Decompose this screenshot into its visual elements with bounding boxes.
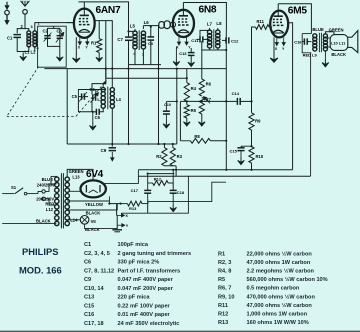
- wire grid entry: [66, 22, 74, 24]
- svg-text:L10 L11: L10 L11: [331, 41, 346, 46]
- IFT1 coil L6: [141, 31, 145, 35]
- C15 ground: [240, 151, 242, 157]
- svg-text:220 pF mica: 220 pF mica: [118, 295, 151, 301]
- 6AN7 cathode ground: [73, 37, 81, 62]
- svg-text:C11: C11: [191, 38, 199, 43]
- svg-text:YELLOW: YELLOW: [85, 202, 103, 207]
- svg-text:C13: C13: [179, 51, 187, 56]
- svg-text:BLUE: BLUE: [312, 27, 324, 32]
- heater Y arrow: [117, 224, 125, 227]
- long vertical from IFT2: [225, 30, 227, 170]
- screen bus: [44, 68, 226, 70]
- svg-text:24 mF 350V electrolytic: 24 mF 350V electrolytic: [118, 321, 180, 327]
- svg-text:C12: C12: [231, 38, 239, 43]
- svg-text:3: 3: [31, 25, 33, 29]
- svg-text:R4, 8: R4, 8: [218, 269, 231, 275]
- 6N8 top lead: [182, 3, 184, 10]
- 6AN7 electrodes: [80, 14, 89, 16]
- primary taps: [55, 175, 57, 177]
- wire C11 drop: [201, 41, 203, 50]
- tube 6AN7 envelope: [74, 9, 95, 38]
- R12 wires: [148, 182, 153, 184]
- capacitor C12: [226, 37, 229, 43]
- osc coil L3: [101, 88, 105, 92]
- C10 ground: [165, 114, 167, 121]
- wire tube1 side: [94, 20, 112, 22]
- aerial symbol: [21, 1, 30, 6]
- 6M5 screen drop: [288, 23, 293, 170]
- svg-text:C15: C15: [84, 303, 94, 309]
- 6V4 heater tap: [69, 190, 80, 192]
- svg-text:L12: L12: [46, 207, 54, 212]
- wire L2 top to grid line: [35, 23, 75, 32]
- svg-text:R13: R13: [129, 206, 137, 211]
- svg-text:6M5: 6M5: [288, 6, 308, 17]
- IFT1 bottom bus: [129, 64, 162, 66]
- volume bus: [180, 100, 226, 102]
- heater center tap ground: [116, 215, 118, 229]
- 6AN7 pin Y: [86, 38, 89, 45]
- tuning box: [38, 26, 67, 67]
- wire trimmer tops: [48, 28, 60, 30]
- svg-text:C16: C16: [294, 40, 302, 45]
- svg-text:RED: RED: [303, 52, 312, 57]
- R7 ground: [201, 114, 203, 118]
- svg-text:S1: S1: [11, 185, 17, 190]
- R4R5 mid wire: [186, 101, 188, 104]
- bus dots B plus: [172, 169, 174, 171]
- power transformer primary: [55, 177, 59, 181]
- heater X arrow: [117, 214, 125, 217]
- plate wire top run 2: [183, 3, 226, 31]
- L4 leads: [111, 86, 113, 87]
- svg-text:Part of I.F. transformers: Part of I.F. transformers: [118, 268, 181, 274]
- 6N8 electrodes: [179, 15, 188, 17]
- svg-text:R9: R9: [255, 119, 261, 124]
- gang dashed bottom: [7, 115, 76, 117]
- C11 wires: [196, 38, 200, 40]
- svg-text:L4: L4: [116, 97, 122, 102]
- C7 leads: [128, 31, 130, 37]
- AVC bus: [67, 143, 177, 145]
- svg-text:L8: L8: [216, 21, 222, 26]
- svg-text:47,000 ohms ½W carbon: 47,000 ohms ½W carbon: [247, 302, 313, 309]
- grid cap wire: [143, 25, 158, 27]
- osc cap bottom wires: [78, 97, 92, 112]
- gang dashed to C4: [76, 81, 106, 116]
- wire aerial down: [24, 14, 26, 28]
- AVC left drop: [66, 69, 68, 144]
- svg-text:1,000 ohms 1W carbon: 1,000 ohms 1W carbon: [247, 311, 308, 317]
- 6AN7 top lead: [83, 2, 85, 9]
- 6M5 pin Y: [282, 38, 285, 46]
- bus B plus: [138, 169, 292, 171]
- C8 leads: [150, 26, 152, 37]
- wire R6 top: [201, 50, 203, 79]
- C13 ground: [188, 59, 195, 66]
- svg-text:240/250V: 240/250V: [37, 183, 55, 188]
- R11 wires: [269, 26, 272, 28]
- C18 wires: [172, 183, 174, 190]
- svg-text:R6, 7: R6, 7: [218, 286, 231, 292]
- svg-text:R2, 3: R2, 3: [218, 260, 231, 266]
- svg-text:R11: R11: [257, 19, 265, 24]
- svg-text:L9: L9: [312, 52, 317, 57]
- C17 wires: [147, 174, 149, 191]
- C15 wires: [240, 146, 242, 148]
- svg-text:0.22 mF 100V paper: 0.22 mF 100V paper: [118, 303, 171, 309]
- svg-text:160 ohms 1W W/W 10%: 160 ohms 1W W/W 10%: [247, 320, 309, 326]
- svg-text:C6: C6: [95, 115, 101, 120]
- wire C12: [222, 39, 226, 41]
- IFT1 bottom leads: [134, 49, 136, 65]
- bus screen lower: [148, 173, 175, 175]
- junction dots x226: [225, 49, 227, 51]
- svg-text:R3: R3: [177, 154, 183, 159]
- gang dashed link: [7, 67, 39, 117]
- R9 wires: [251, 101, 253, 112]
- C17 bottom wire: [147, 199, 149, 213]
- svg-text:R9, 10: R9, 10: [218, 294, 234, 300]
- plate run V1: [79, 2, 129, 32]
- output transformer primary L9: [313, 34, 317, 38]
- svg-text:C10, 14: C10, 14: [84, 286, 104, 292]
- capacitor C18: [170, 190, 177, 193]
- wire trimmer bottoms: [48, 44, 60, 46]
- heater junction wires: [108, 196, 110, 203]
- svg-text:MOD. 166: MOD. 166: [19, 265, 62, 276]
- svg-text:C1: C1: [84, 242, 91, 248]
- C9 wires: [111, 144, 113, 147]
- svg-text:0.047 mF 200V paper: 0.047 mF 200V paper: [118, 286, 174, 292]
- wire sec to speaker bot: [327, 46, 330, 48]
- svg-text:C9: C9: [101, 148, 107, 153]
- output transformer core: [318, 33, 320, 52]
- C18 ground: [170, 205, 177, 212]
- R5 ground: [184, 118, 191, 126]
- svg-text:C13: C13: [84, 295, 94, 301]
- 6V4 anodes: [85, 185, 87, 192]
- svg-text:C7: C7: [117, 37, 123, 42]
- output transformer secondary: [323, 34, 327, 38]
- lamp wires: [67, 219, 80, 221]
- osc coil L4: [110, 88, 114, 92]
- svg-text:R1: R1: [218, 252, 225, 258]
- ground below antenna coil: [20, 53, 27, 61]
- 6N8 pin X: [177, 36, 180, 45]
- C6 wires: [93, 111, 97, 113]
- svg-text:C16: C16: [84, 312, 94, 318]
- svg-text:47,000 ohms 1W carbon: 47,000 ohms 1W carbon: [247, 260, 311, 266]
- svg-text:C1: C1: [7, 36, 13, 41]
- svg-text:C5: C5: [72, 94, 78, 99]
- osc core: [107, 87, 109, 110]
- R8 wires: [180, 140, 190, 142]
- power transformer secondary: [65, 177, 69, 181]
- R7 wiper arrow: [204, 97, 210, 104]
- wire aerial to C1: [17, 29, 25, 34]
- R1 ground: [96, 53, 103, 62]
- osc ground: [92, 112, 94, 122]
- svg-text:560,000 ohms ½W carbon 10%: 560,000 ohms ½W carbon 10%: [247, 276, 328, 283]
- svg-text:BLACK: BLACK: [331, 52, 346, 57]
- svg-text:L5: L5: [130, 23, 136, 28]
- svg-text:C15: C15: [230, 148, 238, 153]
- svg-text:C17: C17: [131, 188, 139, 193]
- IFT1 coil L5: [133, 31, 137, 35]
- coil L2: [33, 31, 37, 35]
- svg-text:C17, 18: C17, 18: [84, 321, 104, 327]
- svg-text:2 gang tuning and trimmers: 2 gang tuning and trimmers: [118, 251, 192, 257]
- wire C7-L5 top: [129, 30, 136, 32]
- svg-text:Y: Y: [126, 224, 129, 228]
- wire to R1: [98, 21, 100, 39]
- wire aerial to L1: [25, 29, 29, 32]
- IFT2 bottom leads: [209, 48, 211, 50]
- 6V4 cathode wire: [104, 170, 138, 184]
- svg-text:BLACK: BLACK: [85, 227, 100, 232]
- svg-text:330 pF mica 2%: 330 pF mica 2%: [118, 260, 160, 266]
- 6AN7 pin X: [78, 38, 81, 45]
- svg-text:VII: VII: [91, 219, 96, 224]
- L3 top lead: [103, 84, 106, 88]
- svg-text:R5: R5: [191, 108, 197, 113]
- svg-text:L6: L6: [144, 20, 150, 25]
- border frame bottom: [0, 330, 360, 332]
- C10 wires: [165, 101, 167, 111]
- 6M5 cathode ground: [270, 37, 278, 62]
- 6M5 electrodes: [274, 15, 283, 17]
- plate wire top run 3: [278, 4, 311, 34]
- svg-text:R11: R11: [218, 303, 228, 309]
- 6N8 cathode ground: [175, 47, 177, 59]
- tube 6N8 envelope: [173, 10, 194, 37]
- svg-text:2.2 megohms ½W carbon: 2.2 megohms ½W carbon: [247, 268, 315, 275]
- IFT2 coil L7: [207, 30, 211, 34]
- wire tube1 g1 down: [111, 21, 113, 87]
- svg-text:C9: C9: [84, 277, 91, 283]
- mains terminals: [42, 190, 45, 193]
- wire R4 top: [186, 69, 188, 83]
- power transformer core: [60, 173, 62, 228]
- svg-text:R1: R1: [91, 41, 97, 46]
- earth ground arrow: [5, 15, 8, 24]
- wire sec to speaker top: [325, 32, 334, 35]
- svg-text:BLACK: BLACK: [86, 210, 101, 215]
- svg-text:BLACK: BLACK: [36, 218, 51, 223]
- svg-text:L7: L7: [207, 22, 213, 27]
- svg-text:X: X: [125, 214, 128, 218]
- osc cap top wires: [78, 90, 105, 97]
- wire tube1 to osc: [92, 21, 106, 90]
- vert C7 bus drop: [128, 65, 130, 144]
- wire IFT1 bus drop: [158, 25, 160, 64]
- R10 bottom: [251, 163, 253, 170]
- svg-text:R10: R10: [256, 154, 264, 159]
- vert C8 drop: [158, 65, 160, 144]
- earth terminal arrow: [5, 2, 8, 9]
- wire C11-L7 top: [200, 30, 210, 39]
- C13 wires: [190, 48, 192, 53]
- speaker voice coil box: [330, 35, 348, 51]
- heater bus y78: [106, 77, 187, 79]
- svg-text:0.01 mF 400V paper: 0.01 mF 400V paper: [118, 312, 171, 318]
- heater wire yellow: [67, 200, 109, 202]
- svg-text:C7, 8, 11,12: C7, 8, 11,12: [84, 268, 114, 274]
- svg-text:6N8: 6N8: [199, 5, 217, 16]
- avc dots: [111, 143, 113, 145]
- bus dots: [105, 68, 107, 70]
- grid cap clip: [159, 22, 165, 29]
- svg-text:100pF mica: 100pF mica: [118, 242, 149, 248]
- svg-text:R5: R5: [218, 277, 225, 283]
- C14 wires: [226, 100, 237, 102]
- R2R3 top wires: [163, 144, 165, 148]
- IFT1 core: [138, 30, 140, 50]
- IFT2 core: [213, 29, 215, 49]
- wire L2 bottom: [34, 47, 36, 52]
- tube 6V4 envelope: [81, 180, 106, 197]
- svg-text:R4: R4: [191, 86, 197, 91]
- C16 wires: [302, 34, 304, 42]
- wire C1 bottom: [17, 38, 29, 52]
- IFT2 coil L8: [216, 30, 220, 34]
- svg-text:R12: R12: [218, 311, 228, 317]
- 6M5 top lead: [277, 4, 279, 10]
- svg-text:470,000 ohms ½W carbon: 470,000 ohms ½W carbon: [247, 293, 316, 300]
- wire drop x1058: [105, 69, 107, 79]
- tube 6M5 envelope: [270, 11, 288, 38]
- svg-text:L13: L13: [72, 174, 80, 179]
- R2R3 bottom wires: [164, 165, 176, 167]
- svg-text:R6: R6: [206, 81, 212, 86]
- filter box lines: [121, 176, 188, 213]
- 6M5 pin X: [275, 38, 278, 46]
- IFT2 bottom bus: [202, 49, 226, 51]
- svg-text:6AN7: 6AN7: [96, 5, 121, 16]
- svg-text:0.5 megohm carbon: 0.5 megohm carbon: [247, 286, 300, 292]
- 6N8 grid cap: [170, 22, 175, 27]
- svg-text:C2, 3, 4, 5: C2, 3, 4, 5: [84, 251, 110, 257]
- svg-text:0.047 mF 400V paper: 0.047 mF 400V paper: [118, 277, 174, 283]
- ground in tuning box: [59, 46, 61, 53]
- heater wire black2: [85, 224, 118, 229]
- output B+ drop: [310, 53, 312, 176]
- bus y176: [138, 175, 310, 177]
- svg-text:6V4: 6V4: [86, 169, 104, 180]
- svg-text:R12: R12: [154, 176, 162, 181]
- R13 wires: [121, 203, 128, 205]
- svg-text:C10: C10: [164, 103, 171, 107]
- 6N8 pin Y: [185, 36, 188, 45]
- speaker ground: [324, 51, 326, 59]
- svg-text:R13: R13: [218, 320, 228, 326]
- svg-text:C6: C6: [84, 260, 91, 266]
- speaker cone: [348, 31, 358, 53]
- mains black wire: [2, 222, 56, 224]
- dial lamp VIII: [80, 216, 89, 225]
- svg-text:22,000 ohms ½W carbon: 22,000 ohms ½W carbon: [247, 251, 313, 258]
- vert x177: [176, 69, 178, 144]
- heater wire black1: [67, 204, 117, 210]
- svg-text:PHILIPS: PHILIPS: [22, 246, 58, 257]
- capacitor C8: [148, 37, 155, 40]
- coil L1: [27, 31, 31, 35]
- svg-text:C14: C14: [232, 91, 240, 96]
- rectifier top wire: [67, 169, 93, 180]
- svg-text:C18: C18: [177, 190, 185, 195]
